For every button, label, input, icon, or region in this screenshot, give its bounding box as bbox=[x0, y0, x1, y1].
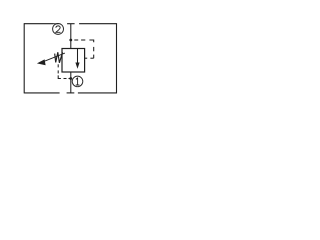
port 2 label bbox=[56, 26, 61, 32]
envelope top edge bbox=[24, 23, 116, 25]
junction dot lower bbox=[69, 77, 72, 80]
valve box bbox=[62, 49, 85, 73]
flow path arrow inside box bbox=[77, 49, 79, 64]
envelope right edge bbox=[116, 23, 118, 93]
adjustment arrow bbox=[45, 53, 65, 61]
pilot line right (dashed) bbox=[74, 40, 93, 58]
port 2 line bbox=[70, 24, 72, 49]
envelope left edge bbox=[23, 23, 25, 93]
envelope bottom edge bbox=[24, 92, 117, 94]
port 2 circle bbox=[53, 24, 64, 35]
top edge over circle bbox=[53, 23, 59, 25]
port 1 label bbox=[76, 78, 80, 85]
port 1 line bbox=[70, 72, 72, 93]
spring bbox=[55, 52, 63, 63]
port 1 circle bbox=[72, 76, 83, 87]
junction dot upper bbox=[69, 39, 72, 42]
pilot line left (dashed) bbox=[58, 64, 71, 78]
